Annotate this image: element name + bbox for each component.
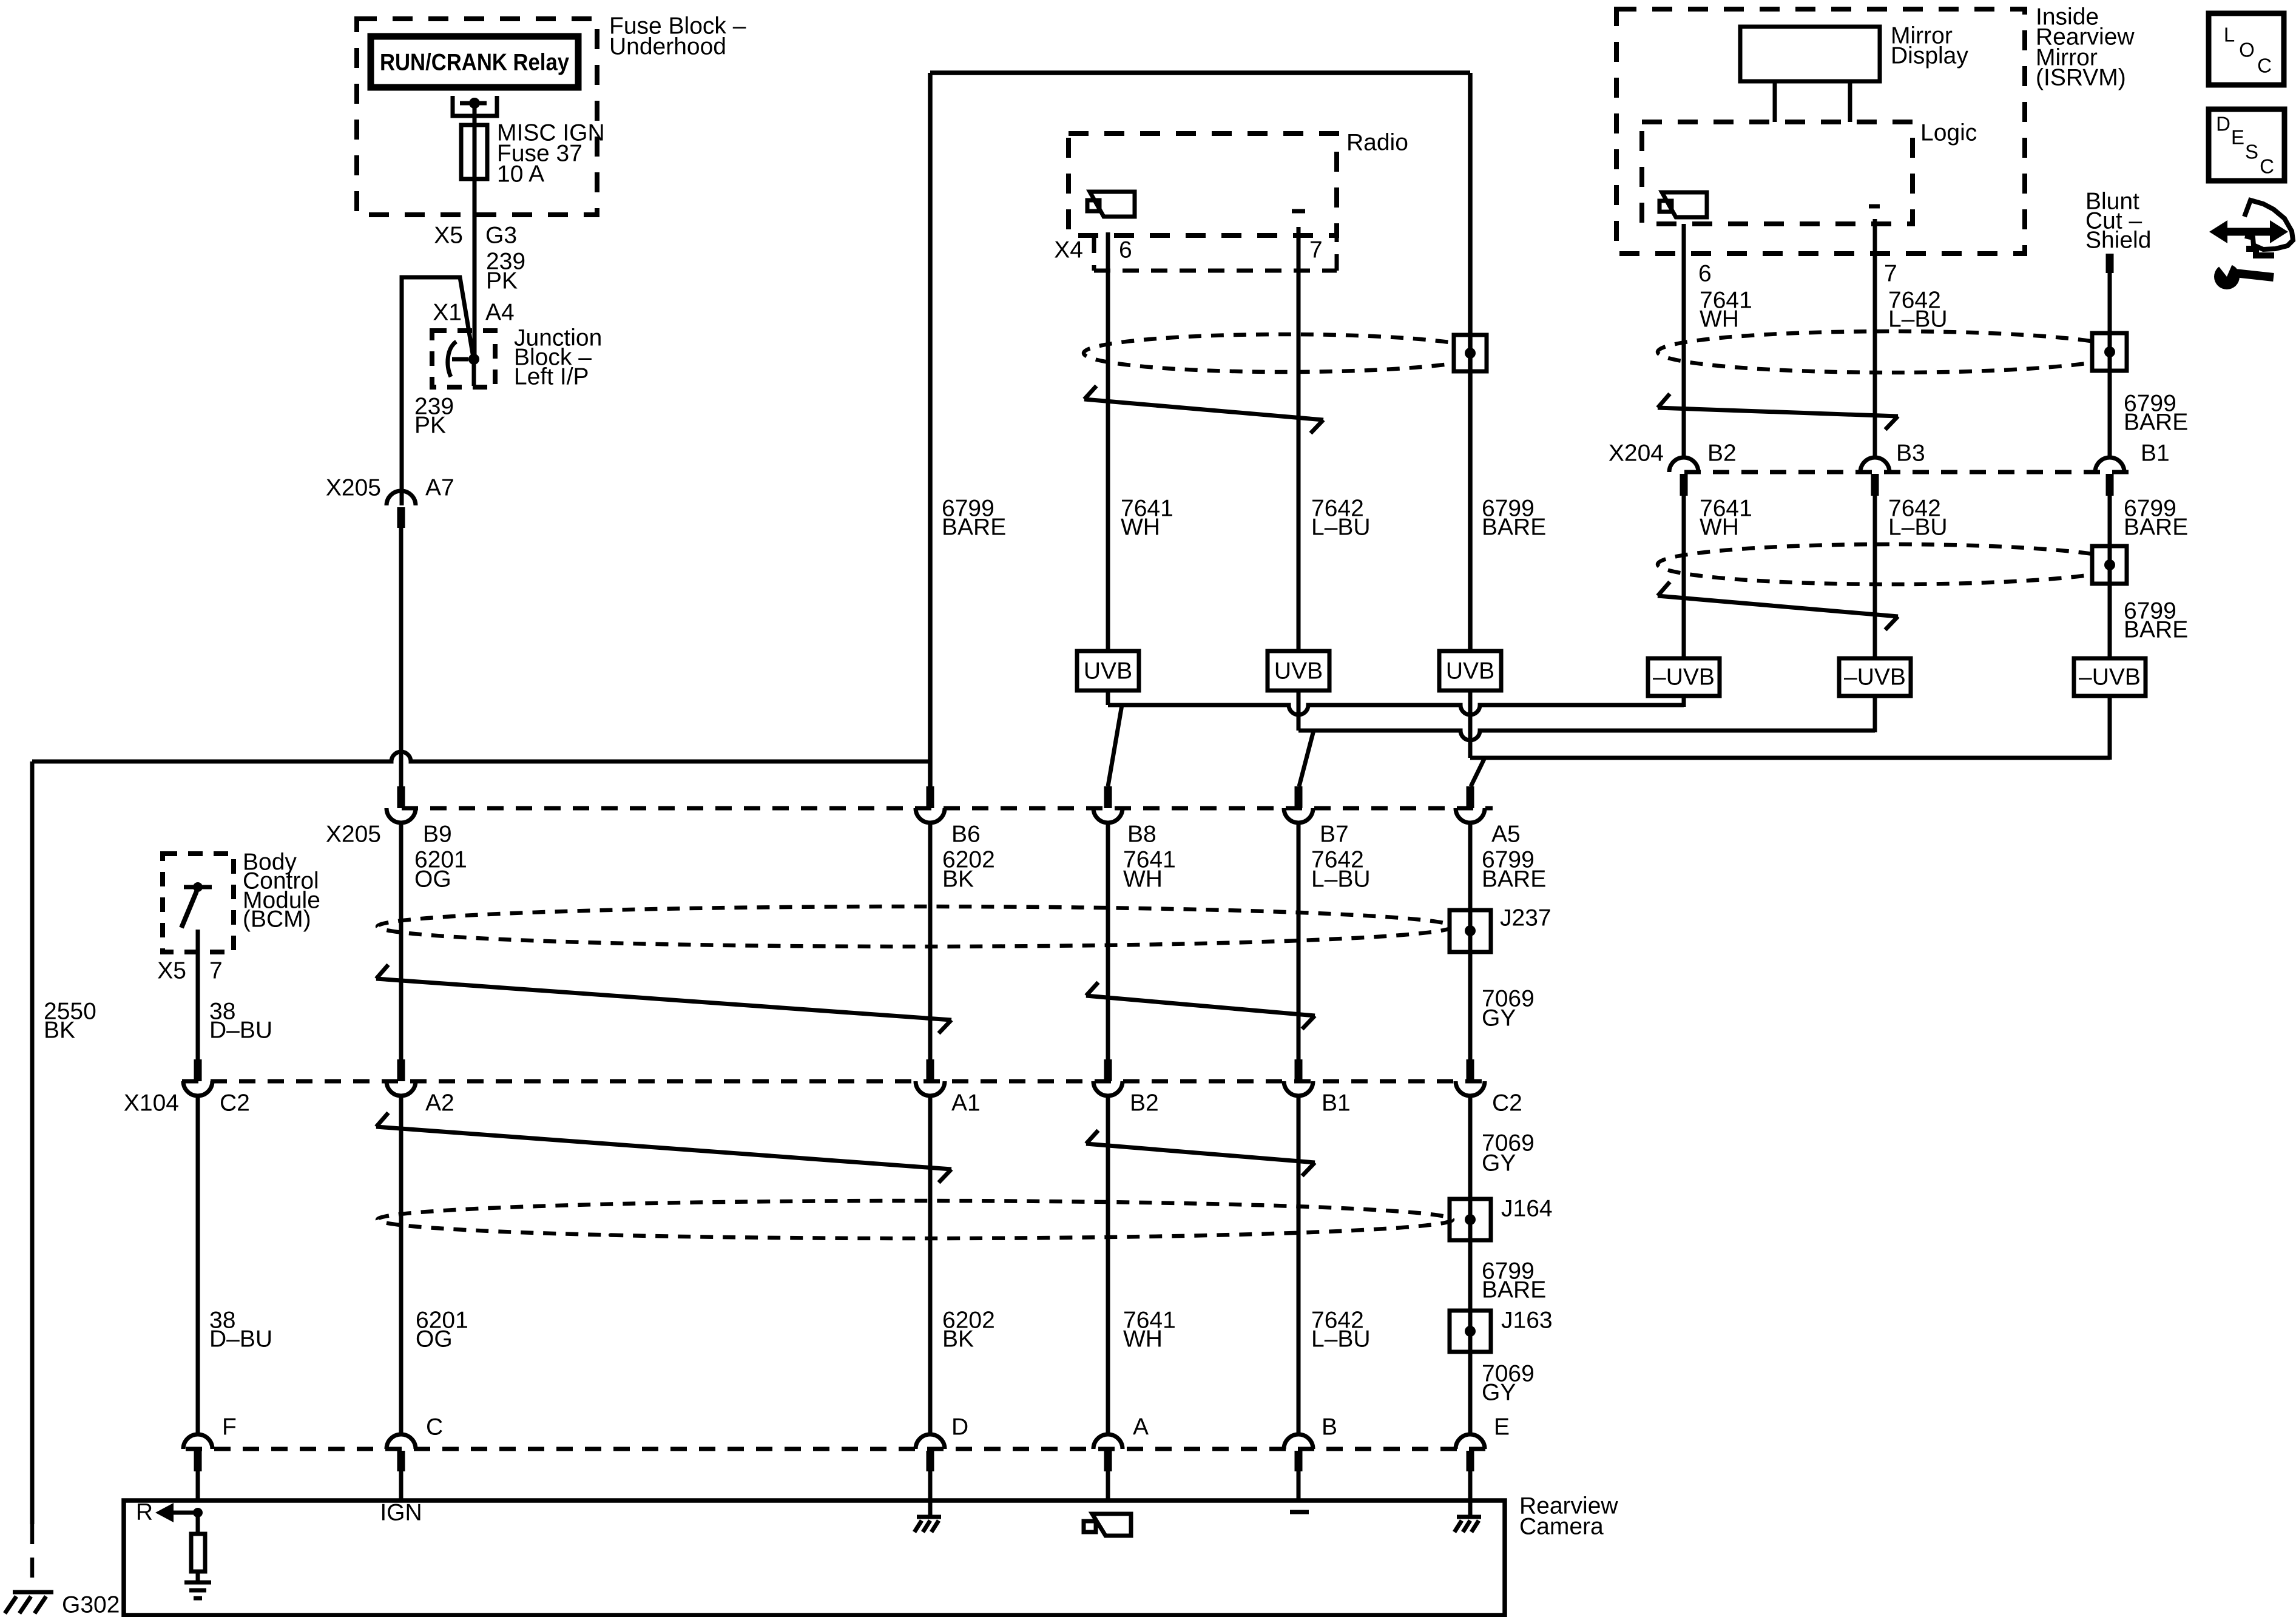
svg-text:–UVB: –UVB [1844,664,1906,690]
wire 7642 L-BU ISRVM upper [1873,219,1877,457]
wire label 6202 BK [942,1308,995,1352]
svg-text:Left I/P: Left I/P [514,364,589,390]
svg-text:Radio: Radio [1346,130,1408,156]
svg-text:BARE: BARE [1482,866,1546,893]
wire relay to fuse [473,103,477,179]
wire 7642 L-BU middle [1297,823,1301,1059]
camera connector pin B [1284,1434,1313,1501]
wire junction block to X205 A7 jog [402,277,473,505]
wire label 6799 BARE [1482,496,1546,541]
wire label 2550 BK [44,999,96,1044]
wire 7641 WH ISRVM upper [1682,224,1686,457]
wire label 6799 BARE [2124,496,2188,541]
wire 239 PK to X205 B9 [399,527,403,786]
pin label X1 A4 [433,300,514,326]
label Mirror Display [1891,23,1968,69]
shield ellipse J164 [377,1201,1453,1238]
svg-text:7: 7 [1884,261,1897,287]
connector X104 pin C2 right [1456,1059,1485,1096]
shield ellipse J237 [377,906,1453,947]
DESC info box [2209,109,2284,181]
splice J-box ISRVM lower shield [2092,546,2127,584]
wire label 7069 GY [1482,986,1535,1031]
shield drain arrow ISRVM upper [1658,394,1898,430]
label MISC IGN Fuse 37 10 A [497,120,605,187]
svg-text:X5: X5 [157,958,186,984]
shield drain arrow band2 left [376,1113,951,1183]
svg-text:BARE: BARE [942,515,1006,541]
svg-text:A4: A4 [485,300,515,326]
wire 7642 L-BU lower [1297,1096,1301,1434]
svg-text:J237: J237 [1500,905,1551,931]
svg-text:C: C [426,1414,443,1440]
svg-text:D: D [2216,113,2230,135]
camera connector pin C [387,1434,416,1501]
wire label 6799 BARE [2124,598,2188,643]
wire label 7641 WH [1123,847,1176,893]
display icon inside logic [1660,192,1707,217]
wire 7069 GY lower [1468,1096,1473,1434]
camera connector pin E [1456,1434,1485,1501]
svg-text:B: B [1322,1414,1337,1440]
junction block bus bar symbol [448,342,479,386]
svg-text:D–BU: D–BU [209,1018,272,1044]
svg-text:Camera: Camera [1519,1514,1604,1540]
svg-text:B3: B3 [1896,441,1925,467]
logic dashed box [1642,122,1913,224]
svg-text:C: C [2260,155,2274,178]
svg-text:D–BU: D–BU [209,1326,272,1352]
label Fuse Block - Underhood [609,13,746,60]
wire label 7641 WH [1700,288,1752,333]
svg-text:A5: A5 [1491,822,1521,848]
repair icon double arrow [2209,220,2288,243]
camera connector pin F [183,1434,212,1501]
-UVB box 2 [1839,658,1911,696]
repair icon step [2246,249,2274,255]
svg-text:BARE: BARE [2124,515,2188,541]
svg-text:L: L [2224,24,2235,46]
svg-text:E: E [2231,126,2244,149]
inside rearview mirror ISRVM dashed box [1616,9,2025,254]
svg-text:WH: WH [1123,866,1163,893]
svg-text:G302: G302 [62,1592,120,1617]
svg-text:L–BU: L–BU [1311,515,1371,541]
svg-text:R: R [136,1499,153,1525]
junction block left I/P dashed box [432,331,495,387]
wire 38 D-BU lower [196,1096,200,1434]
svg-text:X205: X205 [326,822,381,848]
connector X104 pin A2 [387,1059,416,1096]
connector X104 pin B1 [1284,1059,1313,1096]
svg-text:B7: B7 [1320,822,1349,848]
svg-text:6: 6 [1119,237,1132,263]
wire label 6799 BARE [2124,391,2188,436]
svg-text:WH: WH [1700,515,1739,541]
wire 6799 BARE shield top run [930,70,1470,75]
svg-text:F: F [222,1414,237,1440]
svg-text:OG: OG [416,1326,453,1352]
svg-text:BARE: BARE [1482,1277,1546,1303]
svg-text:GY: GY [1482,1005,1516,1031]
shield ellipse ISRVM upper [1658,331,2126,373]
wire 2550 BK horizontal with hop at 6201 wire [32,752,930,761]
svg-text:–UVB: –UVB [1653,664,1715,690]
wire label 7642 L-BU [1311,847,1371,893]
wire 6799/7069 through J237 [1468,823,1473,1059]
connector X104 pin B2 [1093,1059,1123,1096]
svg-text:WH: WH [1700,306,1739,333]
wire 2550 BK vertical [30,761,35,1524]
svg-text:B2: B2 [1130,1090,1159,1116]
wire 6799 BARE right leg [1468,73,1473,651]
svg-text:J163: J163 [1501,1308,1553,1334]
svg-text:BARE: BARE [2124,617,2188,643]
shield drain arrow band1 right [1086,982,1315,1029]
svg-text:X5: X5 [434,223,463,249]
camera connector pin D [916,1434,945,1501]
connector X205 pin B7 [1284,786,1313,823]
relay K: RUN/CRANK Relay box [371,36,578,87]
svg-text:GY: GY [1482,1380,1516,1406]
connector row X204 dashed line [1684,470,2129,474]
splice J163 [1450,1311,1491,1352]
shield ellipse ISRVM lower [1658,544,2126,584]
splice J-box radio shield [1454,335,1487,371]
connector X104 pin A1 [916,1059,945,1096]
wire 6799 BARE ISRVM lower [2108,496,2112,658]
svg-text:L–BU: L–BU [1311,866,1371,893]
label Body Control Module (BCM) [243,849,320,933]
repair icon hook outline [2244,200,2293,249]
svg-text:C: C [2257,55,2272,77]
svg-text:E: E [1494,1414,1510,1440]
svg-text:7: 7 [209,958,223,984]
mirror display box [1740,27,1880,122]
wire label 7642 L-BU [1888,496,1948,541]
wire 7641 WH bus to -UVB with hops [1108,690,1684,786]
svg-text:B1: B1 [1322,1090,1351,1116]
svg-text:(BCM): (BCM) [243,906,311,933]
wire BCM output 38 D-BU [196,952,200,1059]
svg-text:J164: J164 [1501,1196,1553,1222]
wire label 6201 OG [414,847,467,893]
svg-text:WH: WH [1123,1326,1163,1352]
shield ellipse radio [1084,334,1487,372]
wire 2550 BK dashed lower portion [30,1524,35,1592]
wire label 239 PK [414,394,454,439]
svg-text:10 A: 10 A [497,161,544,187]
resistor inside camera [191,1513,205,1582]
earth ground inside camera [184,1582,211,1598]
svg-text:UVB: UVB [1084,658,1132,684]
wire label 7641 WH [1123,1308,1176,1352]
wire label 6201 OG [416,1308,468,1352]
svg-text:B6: B6 [951,822,981,848]
svg-text:BK: BK [942,866,974,893]
wire 6799 BARE blunt cut upper [2108,273,2112,457]
svg-text:B1: B1 [2141,441,2170,467]
label X104 C2 [124,1090,250,1116]
svg-text:BK: BK [942,1326,974,1352]
svg-text:UVB: UVB [1446,658,1494,684]
R terminal arrow inside camera [155,1503,203,1522]
svg-text:Underhood: Underhood [609,34,726,60]
UVB box 3 [1439,651,1501,690]
-UVB box 3 [2074,658,2146,696]
wire label 7642 L-BU [1311,496,1371,541]
fuse F37 MISC IGN 10A [461,125,487,179]
display icon inside radio [1087,192,1135,217]
svg-text:BARE: BARE [1482,515,1546,541]
svg-text:A1: A1 [951,1090,981,1116]
display icon inside camera [1084,1514,1131,1536]
wire fuse output 239 PK [473,179,477,359]
label X204 B2 B3 B1 [1609,441,2170,467]
label Inside Rearview Mirror (ISRVM) [2036,4,2135,91]
svg-text:A7: A7 [425,475,454,501]
LOC info box [2209,13,2284,85]
svg-text:L–BU: L–BU [1311,1326,1371,1352]
wire 7642 L-BU ISRVM lower [1873,496,1877,658]
svg-text:BK: BK [44,1018,75,1044]
svg-text:C2: C2 [1492,1090,1522,1116]
connector X205 pin A7 label [326,475,454,501]
svg-text:BARE: BARE [2124,410,2188,436]
svg-text:L–BU: L–BU [1888,515,1948,541]
wire -UVB2 down to bus2 [1873,696,1877,732]
svg-text:X204: X204 [1609,441,1664,467]
wire label 7069 GY [1482,1361,1535,1406]
fuse block underhood dashed box [357,19,597,215]
splice J-box ISRVM upper shield [2092,333,2127,371]
connector X4 dashed bracket [1094,237,1337,271]
svg-text:7: 7 [1309,237,1323,263]
connector X205 pin B6 [916,786,945,823]
body control module BCM dashed box [163,854,234,952]
connector row X104 dashed line [182,1079,1490,1084]
label Blunt Cut - Shield [2085,189,2151,254]
svg-text:PK: PK [486,268,518,294]
pin label X5 7 [157,958,222,984]
wire 6202 BK lower [928,1096,933,1434]
splice J237 [1450,910,1491,952]
radio dashed box [1069,133,1337,235]
svg-text:O: O [2239,39,2255,61]
chassis ground inside camera under E [1454,1501,1481,1532]
wire label 7641 WH [1700,496,1752,541]
wire -UVB3 down to bus3 [2108,696,2112,760]
svg-text:Logic: Logic [1920,120,1977,146]
UVB box 1 [1077,651,1139,690]
svg-text:X104: X104 [124,1090,179,1116]
wire 6201 OG lower [399,1096,403,1434]
svg-text:X205: X205 [326,475,381,501]
connector X204 pin B2 [1669,457,1698,496]
svg-text:B8: B8 [1127,822,1156,848]
svg-text:6: 6 [1698,261,1712,287]
minus terminal inside logic [1869,204,1880,209]
wire label 6202 BK [942,847,995,893]
connector X205 pin B9 [387,786,416,823]
wire 7641 WH ISRVM lower [1682,496,1686,658]
wire 6799 BARE left leg down to B6 [928,73,933,786]
svg-text:C2: C2 [220,1090,250,1116]
svg-text:–UVB: –UVB [2079,664,2141,690]
wire 7641 WH radio upper [1106,232,1110,651]
label X4 6 7 [1054,237,1322,263]
wire 6202 BK middle [928,823,933,1059]
svg-text:PK: PK [414,413,446,439]
svg-text:(ISRVM): (ISRVM) [2036,65,2126,91]
wire label 38 D-BU [209,1308,272,1352]
svg-text:B9: B9 [423,822,452,848]
rearview camera box [124,1501,1505,1615]
wire 6799 BARE below UVB bus3 [1470,690,2110,786]
connector X205 pin A5 [1456,786,1485,823]
wire label 7641 WH [1121,496,1173,541]
svg-text:Shield: Shield [2085,228,2151,254]
connector X205 A7 symbol [387,491,416,528]
repair icon wrench [2213,260,2274,289]
wire label 38 D-BU [209,999,272,1044]
svg-text:GY: GY [1482,1150,1516,1176]
wire label 239 PK [486,249,525,294]
label Junction Block - Left I/P [514,325,602,390]
shield drain arrow band2 right [1086,1130,1315,1176]
shield drain arrow band1 left [376,965,951,1033]
shield drain arrow ISRVM lower [1658,582,1898,630]
blunt cut stub [2106,254,2114,273]
connector X104 pin C2 [183,1059,212,1096]
connector X205 pin B8 [1093,786,1123,823]
wire 7642 L-BU radio upper [1297,227,1301,651]
wire -UVB1 down to bus1 [1682,696,1686,707]
svg-text:X1: X1 [433,300,462,326]
svg-text:A: A [1133,1414,1149,1440]
svg-text:X4: X4 [1054,237,1083,263]
wire 7641 WH middle [1106,823,1110,1059]
wire 7641 WH lower [1106,1096,1110,1434]
svg-text:D: D [951,1414,968,1440]
svg-text:WH: WH [1121,515,1160,541]
camera connector row dashed line [186,1447,1490,1451]
svg-text:OG: OG [414,866,451,893]
wire label 6799 BARE [1482,847,1546,893]
svg-text:L–BU: L–BU [1888,306,1948,333]
svg-text:A2: A2 [425,1090,454,1116]
label X205 B9 [326,822,452,848]
camera connector pin A [1093,1434,1123,1501]
connector X204 pin B3 [1860,457,1889,496]
splice J164 [1450,1199,1491,1240]
svg-text:Display: Display [1891,43,1968,69]
svg-text:UVB: UVB [1274,658,1323,684]
label Rearview Camera [1519,1493,1618,1540]
UVB box 2 [1268,651,1329,690]
switch inside BCM [181,882,212,952]
wire label 6799 BARE [942,496,1006,541]
wire label 7069 GY [1482,1130,1535,1176]
chassis ground inside camera under D [914,1501,941,1532]
shield drain arrow radio [1084,386,1323,433]
svg-text:S: S [2245,141,2258,163]
wire label 6799 BARE [1482,1258,1546,1303]
-UVB box 1 [1648,658,1720,696]
svg-text:G3: G3 [485,223,517,249]
connector row X205 dashed line [402,806,1493,811]
svg-text:IGN: IGN [380,1500,422,1526]
svg-text:B2: B2 [1707,441,1737,467]
pin label X5 G3 [434,223,517,249]
svg-text:RUN/CRANK Relay: RUN/CRANK Relay [380,50,569,76]
minus terminal inside radio [1292,209,1305,214]
connector X204 pin B1 [2095,457,2124,496]
wire label 7642 L-BU [1311,1308,1371,1352]
minus terminal inside camera [1290,1510,1309,1514]
wire 6201 OG middle [399,823,403,1059]
wire label 7642 L-BU [1888,288,1948,333]
ground G302 [5,1592,53,1613]
wire 7642 L-BU bus to -UVB with hop [1298,690,1875,786]
relay contact terminal 86 bracket [453,96,497,116]
